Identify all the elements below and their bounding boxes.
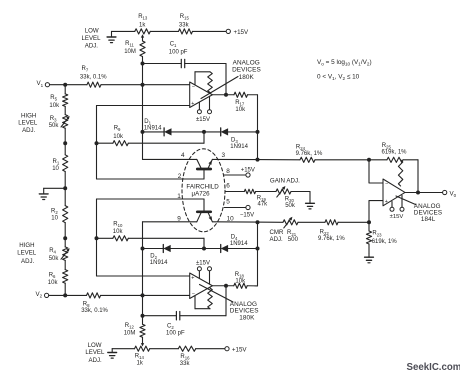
node U2 output <box>224 284 228 288</box>
svg-text:+15V: +15V <box>232 346 247 353</box>
wire U3 output <box>405 192 443 194</box>
svg-text:LEVEL: LEVEL <box>18 120 38 127</box>
node R8-nodeB column <box>141 293 145 297</box>
node R22-R23 junction <box>367 220 371 224</box>
svg-text:LOW: LOW <box>88 342 102 349</box>
wire pin3 junction to R24 <box>258 159 301 161</box>
terminal +15V pin8 <box>241 168 255 177</box>
svg-text:33k: 33k <box>180 361 191 367</box>
label LOW LEVEL ADJ top <box>82 27 102 49</box>
wire R17 to right column <box>248 94 258 96</box>
node D2-D4 junction <box>202 247 206 251</box>
wire pin 10 emitter Q2 <box>212 221 283 224</box>
node divider ground junction <box>63 186 67 190</box>
svg-text:9.76k, 1%: 9.76k, 1% <box>318 236 345 242</box>
svg-text:ADJ.: ADJ. <box>21 258 35 265</box>
resistor R9 10k <box>113 126 128 146</box>
diode D3 1N914 <box>204 128 258 150</box>
resistor R1 10 <box>52 143 68 188</box>
resistor R7 33k 0.1% <box>80 66 107 87</box>
svg-text:LOW: LOW <box>85 27 99 34</box>
capacitor C2 100pF <box>166 312 185 337</box>
resistor R6 10k <box>48 260 68 295</box>
svg-text:R15: R15 <box>180 14 190 21</box>
svg-text:R16: R16 <box>180 354 190 361</box>
svg-text:+15V: +15V <box>241 168 255 174</box>
svg-text:5: 5 <box>226 198 230 205</box>
svg-text:9.76k, 1%: 9.76k, 1% <box>296 151 323 157</box>
wire pin 1 base of Q2 <box>97 198 205 200</box>
svg-text:R9: R9 <box>114 126 121 133</box>
svg-text:LEVEL: LEVEL <box>82 35 102 42</box>
potentiometer R20 50k gain adj <box>276 186 296 209</box>
svg-text:3: 3 <box>222 152 226 159</box>
svg-text:ANALOG: ANALOG <box>233 59 260 66</box>
potentiometer R3 50k high level adj <box>49 106 70 129</box>
svg-text:10M: 10M <box>124 330 136 336</box>
op-amp U1 ANALOG DEVICES 180K <box>190 72 213 123</box>
ground R23 <box>365 254 374 263</box>
node pin10 right column junction <box>256 220 260 224</box>
wire right column bottom <box>257 222 259 286</box>
wire pin 3 emitter Q1 <box>212 158 257 160</box>
svg-text:10: 10 <box>51 215 58 221</box>
node U3 feedback junction <box>416 191 420 195</box>
resistor R25 619k 1% <box>369 143 407 162</box>
capacitor C1 100pF <box>169 41 188 67</box>
node A <box>141 62 145 66</box>
wire top rail left <box>112 30 135 32</box>
svg-text:D3: D3 <box>231 137 238 144</box>
wire R24 to junction <box>315 159 369 161</box>
svg-text:100 pF: 100 pF <box>169 50 188 56</box>
svg-text:FAIRCHILD: FAIRCHILD <box>186 183 219 190</box>
svg-text:10k: 10k <box>235 278 246 284</box>
svg-text:1N914: 1N914 <box>230 241 248 247</box>
node V1-divider <box>63 83 67 87</box>
svg-text:619k, 1%: 619k, 1% <box>382 150 408 156</box>
svg-text:1k: 1k <box>139 23 146 29</box>
svg-text:619k, 1%: 619k, 1% <box>372 239 398 245</box>
svg-text:±15V: ±15V <box>196 117 210 123</box>
node base column R9 tap <box>95 141 99 145</box>
svg-text:μA726: μA726 <box>192 191 211 198</box>
svg-text:HIGH: HIGH <box>19 242 34 249</box>
wire U2 noninverting input <box>97 275 190 277</box>
svg-text:ADJ.: ADJ. <box>22 127 36 134</box>
terminal +15V bottom <box>225 346 247 353</box>
wire base feedback column bottom <box>96 199 98 276</box>
svg-text:10: 10 <box>227 216 235 223</box>
potentiometer R14 1k <box>135 337 150 366</box>
svg-text:LEVEL: LEVEL <box>85 349 105 356</box>
resistor R2 10 <box>51 188 68 238</box>
resistor R24 9.76k 1% <box>296 145 323 163</box>
svg-text:1N914: 1N914 <box>144 126 162 132</box>
wire R3 to R9 tap <box>64 128 66 143</box>
svg-text:Vo = 5 log10 (V1/V2): Vo = 5 log10 (V1/V2) <box>317 59 372 66</box>
wire node A down to D1 <box>142 64 144 132</box>
node U1 output <box>224 93 228 97</box>
wire R8 to op-amp U2 inverting input <box>101 294 190 296</box>
wire R7 to op-amp U1 inverting input <box>101 84 190 86</box>
svg-text:R12: R12 <box>125 323 135 330</box>
wire U1 output <box>212 94 234 96</box>
wire R20 to ground <box>291 191 310 193</box>
svg-text:R14: R14 <box>135 353 145 360</box>
label CMR ADJ R21 500 <box>270 229 299 243</box>
ground bottom-left <box>108 349 135 358</box>
label ANALOG DEVICES 180K bottom <box>200 285 259 322</box>
svg-text:+: + <box>191 275 194 281</box>
svg-text:6: 6 <box>226 183 230 190</box>
wire U1 noninverting input <box>97 105 190 107</box>
svg-text:8: 8 <box>226 168 230 175</box>
svg-text:100 pF: 100 pF <box>166 331 185 337</box>
svg-text:DEVICES: DEVICES <box>232 66 261 73</box>
diode D2 1N914 <box>143 245 205 266</box>
svg-text:R3: R3 <box>50 116 57 123</box>
wire base column to R10 <box>97 237 113 239</box>
svg-text:0 < V1, V2 ≤ 10: 0 < V1, V2 ≤ 10 <box>317 74 360 81</box>
svg-text:R23: R23 <box>372 231 382 238</box>
node D4 right column <box>256 247 260 251</box>
svg-text:R17: R17 <box>235 100 245 107</box>
terminal V0 <box>443 190 457 198</box>
wire R21 to R22 <box>298 221 325 223</box>
svg-text:4: 4 <box>181 152 185 159</box>
node B <box>141 314 145 318</box>
svg-text:ADJ.: ADJ. <box>89 357 103 364</box>
wire D2 column down to node B <box>142 249 144 316</box>
wire base column to R9 <box>97 142 113 144</box>
label FAIRCHILD uA726 <box>186 183 219 197</box>
resistor R11 10M <box>124 41 145 64</box>
wire base feedback column top <box>96 106 98 180</box>
wire V2 to R8 <box>49 294 87 296</box>
resistor R10 10k <box>113 221 129 241</box>
terminal -15V pin5 <box>240 205 254 218</box>
wire C2 to output column <box>180 315 226 317</box>
svg-text:R11: R11 <box>125 41 134 48</box>
wire U3 noninverting input <box>369 201 383 223</box>
svg-text:184L: 184L <box>421 216 436 223</box>
svg-text:−: − <box>192 85 195 91</box>
svg-text:C2: C2 <box>167 324 174 331</box>
svg-text:180K: 180K <box>239 74 255 81</box>
wire pin 8 to +15V <box>224 174 246 176</box>
node R24 junction <box>256 158 260 162</box>
resistor R17 10k <box>234 92 248 113</box>
svg-text:GAIN ADJ.: GAIN ADJ. <box>270 178 300 185</box>
svg-text:10k: 10k <box>113 134 124 140</box>
svg-text:−: − <box>385 181 388 187</box>
svg-text:R2: R2 <box>51 209 58 216</box>
svg-text:10M: 10M <box>124 49 136 55</box>
svg-text:33k, 0.1%: 33k, 0.1% <box>80 74 107 80</box>
svg-text:−15V: −15V <box>240 213 254 219</box>
node R10 tap <box>63 236 67 240</box>
svg-text:R10: R10 <box>113 221 123 228</box>
label ANALOG DEVICES 180K top <box>201 59 261 98</box>
svg-text:R6: R6 <box>49 273 56 280</box>
wire node B to C2 <box>143 315 177 317</box>
wire C1 to output column <box>185 63 226 65</box>
svg-text:ADJ.: ADJ. <box>85 43 99 50</box>
resistor R19 47k <box>244 189 268 207</box>
svg-text:±15V: ±15V <box>196 260 210 266</box>
svg-text:HIGH: HIGH <box>21 113 36 120</box>
svg-text:C1: C1 <box>170 41 177 48</box>
svg-text:+: + <box>385 199 388 205</box>
svg-text:R13: R13 <box>138 14 148 21</box>
wire R14 to R16 <box>150 348 179 350</box>
svg-text:−: − <box>192 292 195 298</box>
resistor R22 9.76k 1% <box>318 220 345 242</box>
svg-text:R1: R1 <box>53 159 60 166</box>
svg-text:50k: 50k <box>49 256 60 262</box>
svg-text:LEVEL: LEVEL <box>17 250 37 257</box>
potentiometer R13 1k <box>135 14 151 41</box>
op-amp U2 ANALOG DEVICES 180K <box>190 260 213 308</box>
svg-text:10k: 10k <box>235 107 246 113</box>
svg-text:1k: 1k <box>137 361 144 367</box>
wire right column top <box>257 95 259 160</box>
node D2 cathode column <box>141 247 145 251</box>
resistor R16 33k <box>178 346 195 367</box>
svg-text:+15V: +15V <box>234 29 249 36</box>
node D3 right column <box>256 130 260 134</box>
svg-text:R7: R7 <box>82 66 89 73</box>
svg-text:10k: 10k <box>49 103 60 109</box>
node D1 anode column <box>141 130 145 134</box>
wire pin 6 to R19 <box>225 191 244 193</box>
node R9 tap <box>63 141 67 145</box>
svg-text:+: + <box>191 101 194 107</box>
wire R10 to D2-D4 junction <box>128 237 204 239</box>
label LOW LEVEL ADJ bottom <box>85 342 105 364</box>
svg-text:9: 9 <box>177 216 181 223</box>
diode D4 1N914 <box>204 235 258 253</box>
uA726 package dashed ellipse <box>182 149 225 232</box>
svg-text:2: 2 <box>178 173 182 180</box>
resistor R5 10k <box>49 85 67 109</box>
terminal V1 <box>37 80 50 88</box>
svg-text:50k: 50k <box>285 203 296 209</box>
svg-text:±15V: ±15V <box>390 214 404 220</box>
node D1-D3 junction <box>202 130 206 134</box>
resistor R12 10M <box>124 316 145 338</box>
wire R22 to junction <box>338 221 369 223</box>
resistor R18 10k <box>234 272 247 288</box>
svg-text:ADJ.: ADJ. <box>270 236 284 243</box>
svg-text:47k: 47k <box>258 202 269 208</box>
svg-text:33k: 33k <box>179 23 190 29</box>
svg-text:10k: 10k <box>48 280 59 286</box>
svg-text:10k: 10k <box>113 229 124 235</box>
node R24-R25 junction <box>367 158 371 162</box>
wire R25 feedback to output <box>403 159 418 161</box>
resistor R8 33k 0.1% <box>81 293 108 314</box>
transistor Q2 bottom of uA726 <box>197 199 213 222</box>
op-amp U3 ANALOG DEVICES 184L <box>383 160 405 220</box>
svg-text:R5: R5 <box>50 95 57 102</box>
wire node A to C1 <box>143 63 182 65</box>
ground top-left <box>107 31 116 42</box>
svg-text:50k: 50k <box>49 123 60 129</box>
wire R18 to right column <box>247 285 257 287</box>
svg-text:1: 1 <box>177 193 181 200</box>
wire R16 to +15V <box>196 348 225 350</box>
wire D1 column down to pin 4 <box>142 132 144 160</box>
wire R9 to D1-D3 junction <box>128 142 204 144</box>
svg-text:500: 500 <box>288 236 299 243</box>
potentiometer R4 50k high level adj <box>49 238 70 262</box>
node base column R10 tap <box>95 236 99 240</box>
ground divider <box>39 188 65 199</box>
svg-text:SeekIC.com: SeekIC.com <box>407 362 460 373</box>
transistor Q1 top of uA726 <box>197 159 213 179</box>
terminal V2 <box>36 291 49 299</box>
label HIGH LEVEL ADJ bottom <box>17 242 37 265</box>
svg-text:180K: 180K <box>239 315 255 322</box>
terminal +15V top <box>226 29 249 36</box>
wire pin 5 to -15V <box>224 207 246 209</box>
wire pin 2 base of Q1 <box>97 178 205 180</box>
svg-text:33k, 0.1%: 33k, 0.1% <box>81 308 108 314</box>
label HIGH LEVEL ADJ top <box>18 113 38 134</box>
svg-text:1N914: 1N914 <box>150 260 168 266</box>
node V2-divider <box>63 293 67 297</box>
resistor R23 619k 1% <box>366 222 397 254</box>
wire R19 to R20 <box>256 191 276 193</box>
wire U3 inverting input <box>369 160 383 183</box>
wire U2 output <box>212 285 233 287</box>
wire node B column up to D2 <box>142 222 144 249</box>
wire pin 9 collector Q2 <box>143 221 197 223</box>
node R7-nodeA column <box>141 83 145 87</box>
svg-text:R4: R4 <box>49 248 56 255</box>
potentiometer R21 500 CMR adj <box>283 217 298 228</box>
diode D1 1N914 <box>143 119 205 136</box>
wire R15 to +15V <box>193 30 227 32</box>
wire V1 to R7 <box>50 84 88 86</box>
svg-text:1N914: 1N914 <box>230 144 248 150</box>
svg-text:10: 10 <box>52 166 59 172</box>
label ANALOG DEVICES 184L <box>396 196 442 223</box>
wire R13 to R15 <box>150 30 178 32</box>
resistor R15 33k <box>179 14 193 34</box>
ground gain adj <box>306 200 315 209</box>
